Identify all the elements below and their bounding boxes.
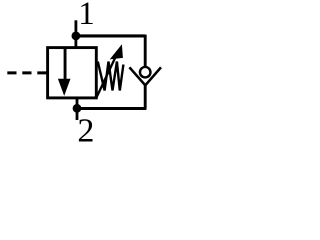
svg-text:1: 1 bbox=[78, 0, 95, 32]
svg-text:2: 2 bbox=[77, 112, 94, 146]
